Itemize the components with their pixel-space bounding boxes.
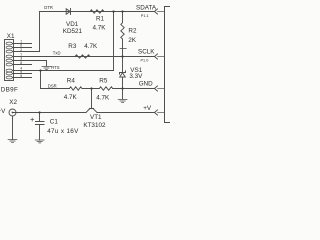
wire pin9 stub <box>13 73 32 75</box>
X1 pin 9 socket <box>6 72 12 75</box>
junction node GND row / zener column <box>121 87 123 89</box>
svg-text:RTS: RTS <box>51 65 60 70</box>
junction node top rail / R2 <box>121 10 123 12</box>
stub SDATA to MCU box <box>158 11 165 13</box>
svg-text:GND: GND <box>139 81 153 88</box>
transistor VT1 base bar <box>90 108 94 110</box>
stub +V to MCU box <box>158 112 165 114</box>
wire pin2 to riser <box>13 51 40 53</box>
X1 pin 8 socket <box>6 63 12 66</box>
svg-text:4.7K: 4.7K <box>64 94 78 101</box>
wire column crossing SCLK (top rail to pin4 row) <box>113 12 115 71</box>
junction node top rail / crossing column <box>112 10 114 12</box>
resistor R2 vertical <box>121 12 124 57</box>
svg-text:DTR: DTR <box>44 5 53 10</box>
wire pin5 stub <box>13 77 32 79</box>
junction node X2 row / C1 <box>38 111 40 113</box>
port arrow SDATA <box>155 9 158 14</box>
svg-text:2K: 2K <box>128 37 137 44</box>
svg-text:R3: R3 <box>68 43 77 50</box>
tick mark on R2 column <box>120 48 126 50</box>
wire GND row to ground symbol <box>122 89 124 100</box>
ground under C1 <box>35 140 44 143</box>
svg-text:VD1: VD1 <box>66 21 79 28</box>
junction node SCLK / R2-zener column <box>121 55 123 57</box>
svg-text:C1: C1 <box>50 118 59 125</box>
svg-text:4.7K: 4.7K <box>96 94 110 101</box>
svg-text:+V: +V <box>143 105 152 112</box>
port arrow +V <box>155 110 158 115</box>
X1 pin 2 socket <box>6 50 12 53</box>
X1 pin 7 socket <box>6 55 12 58</box>
wire riser pin2 up to top rail <box>39 12 41 52</box>
svg-text:4.7K: 4.7K <box>93 24 107 31</box>
svg-text:P1.1: P1.1 <box>141 14 149 18</box>
svg-text:X2: X2 <box>9 99 17 106</box>
transistor VT1 collector diagonal <box>86 109 90 113</box>
svg-text:VT1: VT1 <box>90 114 102 121</box>
diode VD1 triangle <box>66 9 70 14</box>
ground under X2 <box>8 140 17 143</box>
svg-text:P1.0: P1.0 <box>141 59 149 63</box>
svg-text:4.7K: 4.7K <box>84 43 98 50</box>
svg-text:47u x 16V: 47u x 16V <box>47 128 79 135</box>
junction node pin4 row / drop to R4 <box>39 69 41 71</box>
svg-text:DB9F: DB9F <box>1 86 18 93</box>
resistor R3 <box>75 55 90 58</box>
svg-text:R2: R2 <box>128 27 137 34</box>
socket X2 circle <box>9 109 16 116</box>
transistor VT1 base lead <box>91 89 93 109</box>
wire R4 row left <box>41 88 70 90</box>
svg-text:+V: +V <box>0 108 6 115</box>
svg-text:KT3102: KT3102 <box>83 122 106 129</box>
svg-text:2: 2 <box>20 48 22 52</box>
zener VS1 cathode bar with wings <box>120 71 126 74</box>
wire drop from pin4 row to R4 row <box>40 71 42 89</box>
X1 pin 5 socket <box>6 76 12 79</box>
svg-text:R4: R4 <box>67 78 76 85</box>
connector X1 body <box>5 40 14 81</box>
wire pin6 stub <box>13 47 32 49</box>
zener VS1 triangle <box>120 73 126 77</box>
port arrow SCLK <box>155 54 158 59</box>
svg-text:R1: R1 <box>96 16 105 23</box>
wire X2 stem down <box>12 116 14 140</box>
X2 center pin dot <box>12 112 14 114</box>
X1 pin 1 socket <box>6 42 12 45</box>
wire R2 column to zener <box>122 57 124 73</box>
wire pin1 stub <box>13 43 32 45</box>
resistor R1 <box>90 10 104 13</box>
capacitor C1 polarity plus <box>31 118 34 121</box>
resistor R4 <box>69 87 82 90</box>
junction node R4-R5 / base <box>90 87 92 89</box>
wire pin3 to ground drop <box>13 61 47 67</box>
transistor VT1 emitter diagonal <box>93 109 97 113</box>
svg-text:SCLK: SCLK <box>138 49 155 56</box>
svg-text:5: 5 <box>20 74 22 78</box>
port arrow GND <box>155 86 158 91</box>
svg-text:KD521: KD521 <box>63 28 83 35</box>
wire SCLK rail from pin7 <box>13 56 155 58</box>
svg-text:3: 3 <box>20 57 22 61</box>
svg-text:3.3V: 3.3V <box>129 73 143 80</box>
resistor R5 <box>99 87 112 90</box>
svg-text:SDATA: SDATA <box>136 5 157 12</box>
svg-text:R5: R5 <box>99 78 108 85</box>
X1 pin 6 socket <box>6 46 12 49</box>
ground under zener column <box>118 100 127 103</box>
wire C1 to ground <box>39 125 41 141</box>
wire R5 to GND arrow <box>113 88 155 90</box>
svg-text:8: 8 <box>20 61 22 65</box>
wire X2 row to transistor <box>13 112 87 114</box>
MCU box edge (cut off at right) <box>165 7 171 123</box>
X1 pin 4 socket <box>6 69 12 72</box>
stub SCLK to MCU box <box>158 56 165 58</box>
stub GND to MCU box <box>158 88 165 90</box>
svg-text:6: 6 <box>20 44 22 48</box>
wire emitter row to +V arrow <box>97 112 155 114</box>
wire pin8 stub <box>13 64 32 66</box>
diode VD1 cathode bar <box>70 9 72 15</box>
svg-text:DSR: DSR <box>48 83 57 88</box>
wire between R4 and R5 <box>82 88 99 90</box>
X1 pin 3 socket <box>6 59 12 62</box>
svg-text:X1: X1 <box>7 33 15 40</box>
ground under pin3 wire <box>42 67 51 70</box>
capacitor C1 plates <box>36 122 45 125</box>
wire top rail (SDATA net) <box>40 11 155 13</box>
wire C1 tap <box>39 113 41 122</box>
wire zener to GND row <box>122 77 124 89</box>
wire pin4 row <box>13 70 114 72</box>
svg-text:TxD: TxD <box>53 51 61 56</box>
